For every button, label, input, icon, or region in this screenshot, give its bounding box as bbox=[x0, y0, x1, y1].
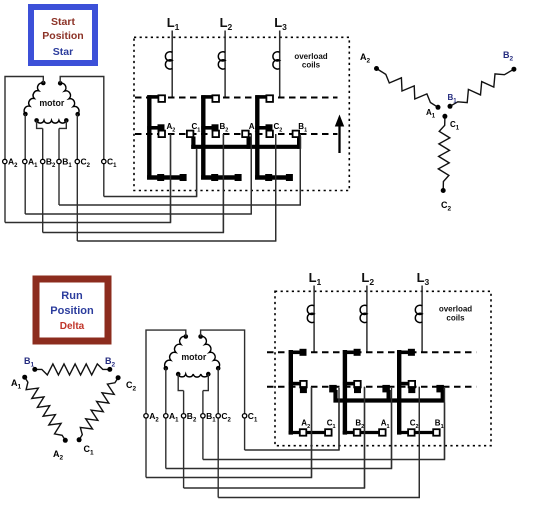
winding A2-A1 (star resistor) bbox=[374, 66, 441, 110]
delta bridge bar bbox=[334, 398, 445, 402]
svg-text:C1: C1 bbox=[84, 444, 95, 457]
wire: motor M2 top-right lead to terminal C1 column bbox=[201, 330, 245, 450]
wire: terminal A2 to contactor contact A2 bbox=[5, 134, 171, 223]
wire: run contact A2 drop bbox=[311, 387, 313, 478]
line L3 with overload coil bbox=[273, 15, 287, 98]
wire: contact A2 drop bbox=[170, 134, 172, 223]
svg-text:A2: A2 bbox=[53, 449, 64, 462]
svg-text:B2: B2 bbox=[220, 122, 229, 134]
contact bus dashed line (run, line side) bbox=[267, 351, 476, 353]
contactor unit phase 2 (run diagram) bbox=[343, 349, 390, 436]
svg-text:L2: L2 bbox=[361, 270, 374, 287]
svg-text:C2: C2 bbox=[221, 411, 231, 424]
wire: motor M1 top-right lead to terminal C1 column bbox=[60, 77, 104, 197]
wire: motor M2 left winding to terminal A1 column bbox=[165, 368, 167, 468]
actuation arrow (up) bbox=[335, 115, 344, 154]
svg-text:B2: B2 bbox=[105, 356, 116, 369]
contact bus dashed line (top, line side) bbox=[135, 97, 338, 99]
svg-text:Position: Position bbox=[42, 30, 83, 42]
contactor unit phase 2 (start diagram) bbox=[201, 95, 242, 181]
wire: run contact C2 drop bbox=[418, 387, 420, 498]
wire: run contact B1 drop bbox=[444, 388, 446, 460]
star contact B1 with drop to star bridge bbox=[293, 131, 300, 149]
contactor unit phase 3 (run diagram) bbox=[397, 349, 444, 436]
motor M1 terminals A2 A1 B2 B1 C2 C1 bbox=[3, 157, 118, 170]
svg-text:C2: C2 bbox=[126, 380, 137, 393]
svg-text:L1: L1 bbox=[309, 270, 322, 287]
svg-text:A1: A1 bbox=[169, 411, 179, 424]
wire: terminal C2 to contactor contact C2 bbox=[77, 134, 275, 241]
wire: contact B2 drop bbox=[222, 134, 224, 233]
contact labels A2 C1 B2 A1 C2 B1 (start contactor) bbox=[167, 122, 308, 134]
wire: contact B1 drop bbox=[299, 134, 301, 205]
star node labels bbox=[360, 50, 514, 213]
svg-text:motor: motor bbox=[39, 98, 64, 108]
svg-text:B1: B1 bbox=[206, 411, 216, 424]
svg-text:L3: L3 bbox=[274, 15, 287, 32]
wire: terminal B2 to contactor contact B2 bbox=[43, 134, 224, 233]
motor M2 terminals A2 A1 B2 B1 C2 C1 bbox=[144, 411, 258, 424]
contactor unit phase 1 (start diagram) bbox=[147, 95, 187, 181]
start position star label box bbox=[31, 7, 95, 63]
delta node labels bbox=[11, 356, 137, 462]
contactor unit phase 3 (start diagram) bbox=[255, 95, 293, 181]
svg-text:overload: overload bbox=[439, 305, 472, 314]
wire: terminal A1 to contactor contact A1 bbox=[25, 134, 251, 214]
svg-text:C2: C2 bbox=[81, 157, 91, 170]
wire: motor M2 right winding to terminal C2 column bbox=[217, 368, 219, 497]
svg-text:C2: C2 bbox=[441, 200, 452, 213]
svg-text:C1: C1 bbox=[248, 411, 258, 424]
wire: terminal C2 to run contactor contact C2 bbox=[218, 387, 419, 498]
delta bridge contact B1 with drop bbox=[436, 385, 444, 403]
contact bus dashed line (run, middle) bbox=[267, 386, 476, 388]
svg-text:B1: B1 bbox=[62, 157, 72, 170]
svg-text:motor: motor bbox=[181, 352, 206, 362]
svg-text:B2: B2 bbox=[187, 411, 197, 424]
wire: run contact A1 drop bbox=[391, 388, 393, 469]
svg-text:Start: Start bbox=[51, 16, 75, 28]
svg-text:B1: B1 bbox=[448, 93, 458, 105]
winding A1-A2 (delta resistor) bbox=[22, 375, 68, 443]
line L1 with overload coil (run) bbox=[307, 270, 321, 352]
wire: motor M1 top-left lead to terminal A2 column bbox=[5, 77, 43, 223]
wire: motor M1 left winding to terminal A1 column bbox=[24, 114, 26, 214]
wire: terminal B1 to run contactor contact B1 bbox=[203, 403, 445, 460]
svg-text:A2: A2 bbox=[167, 122, 176, 134]
line L2 with overload coil (run) bbox=[360, 270, 374, 352]
svg-text:Position: Position bbox=[50, 305, 94, 317]
wire: terminal B2 to run contactor contact B2 bbox=[184, 387, 365, 488]
wire: motor M1 pedestal left leg to terminal B2 column bbox=[42, 128, 44, 232]
star contact A1 with drop to star bridge bbox=[242, 131, 249, 149]
wire: contact C1 drop bbox=[196, 149, 198, 197]
line L3 with overload coil (run) bbox=[415, 270, 429, 352]
wire: terminal A2 to run contactor contact A2 bbox=[146, 387, 312, 478]
contactor/overload enclosure (run) dashed box bbox=[275, 291, 491, 445]
star contact C1 with drop to star bridge bbox=[187, 131, 194, 149]
svg-text:L3: L3 bbox=[417, 270, 430, 287]
svg-text:A1: A1 bbox=[28, 157, 38, 170]
line L1 with overload coil bbox=[165, 15, 179, 98]
motor M2 (delta diagram motor) bbox=[164, 334, 221, 390]
wire: motor M1 pedestal right leg to terminal B1 column bbox=[58, 128, 60, 205]
winding B1-B2 (delta resistor) bbox=[32, 364, 112, 375]
wire: run contact C1 drop bbox=[338, 388, 340, 450]
wire: contact C2 drop bbox=[275, 134, 277, 241]
star point bridge bar bbox=[191, 145, 299, 149]
wire: terminal C1 to run contactor contact C1 bbox=[245, 403, 339, 451]
svg-text:Delta: Delta bbox=[60, 321, 85, 332]
svg-text:coils: coils bbox=[302, 60, 321, 69]
svg-text:B2: B2 bbox=[503, 50, 514, 63]
contactor unit phase 1 (run diagram) bbox=[289, 349, 336, 436]
contactor/overload enclosure (start) dashed box bbox=[134, 37, 349, 190]
wire: terminal A1 to run contactor contact A1 bbox=[166, 403, 392, 469]
winding B2-B1 (star resistor) bbox=[448, 67, 517, 109]
wire: motor M1 right winding to terminal C2 column bbox=[76, 114, 78, 241]
line L2 with overload coil bbox=[218, 15, 232, 98]
wire: terminal C1 to contactor K2 contact C1 bbox=[104, 149, 197, 197]
wire: terminal B1 to contactor contact B1 bbox=[59, 134, 300, 205]
svg-text:A1: A1 bbox=[11, 378, 22, 391]
svg-text:coils: coils bbox=[446, 314, 465, 323]
svg-text:B2: B2 bbox=[46, 157, 56, 170]
svg-text:B1: B1 bbox=[24, 356, 35, 369]
wire: motor M2 pedestal left leg to terminal B2 column bbox=[183, 391, 185, 488]
svg-text:A2: A2 bbox=[149, 411, 159, 424]
winding C1-C2 (star resistor) bbox=[438, 114, 450, 193]
winding C2-C1 (delta resistor) bbox=[77, 375, 121, 442]
contact bus dashed line (middle) bbox=[135, 133, 338, 135]
overload coils label bbox=[294, 52, 327, 69]
svg-text:L1: L1 bbox=[167, 15, 180, 32]
motor M1 (star diagram motor) bbox=[23, 81, 80, 129]
svg-text:Run: Run bbox=[61, 290, 83, 302]
wire: run contact B2 drop bbox=[364, 387, 366, 488]
wire: motor M2 top-left lead to terminal A2 column bbox=[146, 330, 186, 477]
delta bridge contact A1 with drop bbox=[382, 385, 390, 403]
svg-text:C1: C1 bbox=[107, 157, 117, 170]
wire: motor M2 pedestal right leg to terminal B1 column bbox=[202, 391, 204, 460]
svg-text:C2: C2 bbox=[274, 122, 283, 134]
svg-text:Star: Star bbox=[53, 46, 73, 58]
wire: contact A1 drop bbox=[250, 134, 252, 214]
svg-text:A2: A2 bbox=[8, 157, 18, 170]
svg-text:A1: A1 bbox=[426, 108, 436, 120]
svg-text:A2: A2 bbox=[360, 52, 371, 65]
run position delta label box bbox=[36, 279, 108, 341]
delta bridge contact C1 with drop bbox=[329, 385, 337, 403]
svg-text:C1: C1 bbox=[450, 120, 460, 132]
overload coils label (run) bbox=[439, 305, 472, 323]
svg-text:L2: L2 bbox=[220, 15, 233, 32]
